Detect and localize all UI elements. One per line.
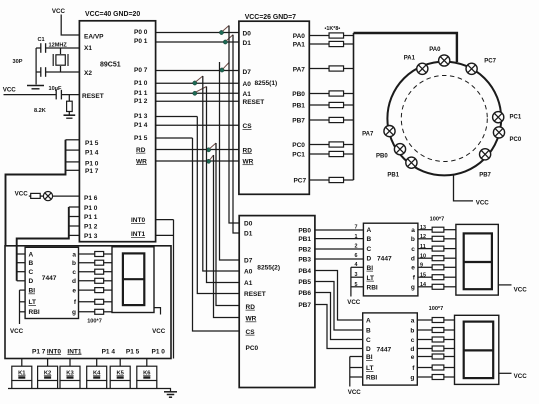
wire WR to U2 WR — [156, 160, 239, 162]
svg-text:P1 4: P1 4 — [85, 150, 99, 157]
svg-text:PC7: PC7 — [484, 58, 496, 64]
svg-text:PC1: PC1 — [292, 152, 305, 159]
LED ring inner dashed circle — [401, 76, 487, 162]
wire resistor RPC0 to common bus — [344, 144, 354, 146]
display DS2 package box — [456, 224, 498, 295]
wire U3 PB7 to U6 D (staircase) — [315, 305, 363, 349]
svg-text:P1 0: P1 0 — [152, 348, 166, 355]
wire U4 d to resistor — [79, 280, 95, 282]
svg-text:c: c — [411, 246, 415, 253]
decoder 7447 U4 package box — [25, 247, 78, 318]
wire U4 input A stub — [17, 253, 25, 255]
svg-text:D1: D1 — [244, 231, 253, 238]
lamp DS1 (P1.6) — [43, 192, 52, 201]
svg-text:EA/VP: EA/VP — [84, 34, 104, 41]
wire VCC to resistor R2 — [29, 195, 31, 197]
PPI 8255(2) U3 package box — [239, 216, 315, 388]
key switch K6 — [137, 366, 157, 380]
svg-text:RD: RD — [136, 147, 146, 154]
wire U4 b to resistor — [79, 262, 95, 264]
wire key K5 legs to ground rail — [110, 381, 130, 389]
svg-text:7: 7 — [355, 225, 358, 231]
wire resistor to display DS4 g — [104, 311, 112, 313]
svg-text:D7: D7 — [244, 258, 253, 265]
wire key K2 to module — [47, 359, 49, 367]
svg-text:P1 0: P1 0 — [134, 80, 148, 87]
wire U5 f to resistor — [418, 276, 432, 278]
svg-text:VCC: VCC — [52, 8, 66, 15]
svg-text:VCC: VCC — [15, 191, 29, 198]
svg-text:B: B — [367, 236, 372, 243]
svg-text:P0 1: P0 1 — [134, 38, 148, 45]
node P1.1 bus junction — [193, 91, 197, 95]
svg-text:A0: A0 — [243, 81, 252, 88]
svg-text:LT: LT — [367, 275, 374, 282]
ground (crystal capacitors) — [27, 86, 44, 89]
resistor RPB0 (LED ring PB0) — [329, 91, 344, 96]
display DS4 digit eight — [123, 253, 144, 305]
resistor segment a (display DS3) — [432, 318, 444, 323]
svg-text:C: C — [29, 269, 34, 276]
wire U4 input B stub — [17, 262, 25, 264]
svg-text:8.2K: 8.2K — [34, 108, 46, 114]
svg-text:89C51: 89C51 — [100, 62, 121, 69]
svg-text:P0 0: P0 0 — [134, 29, 148, 36]
svg-text:INT0: INT0 — [131, 217, 145, 224]
svg-text:D0: D0 — [243, 31, 252, 38]
svg-text:7447: 7447 — [377, 347, 392, 354]
wire U5 BI/LT/RBI common to VCC — [351, 267, 364, 296]
svg-text:c: c — [411, 337, 415, 344]
svg-text:LT: LT — [29, 299, 36, 306]
svg-text:P1 0: P1 0 — [85, 161, 99, 168]
bus entry diagonal RD — [210, 143, 216, 149]
wire resistor to display DS4 d — [104, 280, 112, 282]
svg-text:P0 7: P0 7 — [134, 67, 148, 74]
svg-text:B: B — [366, 327, 371, 334]
wire key K4 to module — [96, 359, 98, 367]
wire capacitor common to ground — [35, 48, 37, 85]
bus wire WR to U3 WR — [214, 155, 240, 318]
wire U3 PB5 to U6 B (staircase) — [315, 282, 363, 331]
wire resistor to display DS2 b — [444, 238, 456, 240]
key switch K1 — [12, 366, 32, 380]
wire INT1 to key module — [156, 234, 174, 236]
ground rail wire (keys) — [8, 389, 171, 392]
wire P2.1 stub (left) — [69, 216, 80, 218]
wire resistor to display DS2 c — [444, 248, 456, 250]
wire key K2 legs to ground rail — [38, 381, 58, 389]
wire U2 PB7 to resistor — [309, 119, 329, 121]
svg-text:P1 2: P1 2 — [84, 224, 98, 231]
svg-text:B: B — [29, 260, 34, 267]
wire key K1 to module — [21, 359, 23, 367]
svg-text:PB5: PB5 — [298, 279, 311, 286]
wire U4 input C stub — [17, 271, 25, 273]
svg-text:BI: BI — [367, 265, 374, 272]
wire display DS4 common down to VCC — [154, 308, 161, 315]
wire resistor to display DS4 f — [104, 301, 112, 303]
svg-text:PA7: PA7 — [293, 66, 306, 73]
svg-text:VCC=40 GND=20: VCC=40 GND=20 — [85, 11, 140, 18]
resistor segment a (display DS4) — [95, 252, 104, 257]
wire lamp DS1 to P1.6 pin — [53, 195, 80, 197]
decoder 7447 U6 package box — [363, 313, 418, 385]
svg-text:INT1: INT1 — [131, 231, 145, 238]
wire U5 c to resistor — [418, 248, 432, 250]
wire resistor to display DS4 b — [104, 262, 112, 264]
svg-text:CS: CS — [243, 123, 253, 130]
svg-text:A0: A0 — [244, 269, 253, 276]
svg-text:PA7: PA7 — [362, 131, 374, 137]
wire resistor to display DS2 f — [444, 276, 456, 278]
svg-text:d: d — [410, 346, 414, 353]
bus wire INT0/INT1 down right side of key module — [173, 220, 175, 359]
svg-text:D: D — [29, 278, 34, 285]
svg-text:100*7: 100*7 — [430, 216, 445, 222]
wire P1.3 to vertical bus — [156, 116, 198, 118]
wire resistor RPB1 to common bus — [344, 104, 354, 106]
resistor segment b (display DS2) — [432, 236, 444, 241]
wire P1.7 stub (left) — [66, 169, 80, 171]
svg-text:PC0: PC0 — [510, 137, 522, 143]
svg-text:VCC: VCC — [514, 373, 528, 380]
svg-text:P1 0: P1 0 — [84, 205, 98, 212]
wire VCC to EA/VP pin — [61, 15, 79, 36]
wire display DS2 common to VCC — [498, 284, 511, 286]
wire U6 BI/LT/RBI common to VCC — [350, 357, 363, 387]
bus wire RD to U3 RD — [216, 143, 239, 306]
svg-text:PB4: PB4 — [298, 268, 311, 275]
svg-text:K1: K1 — [18, 370, 26, 376]
svg-text:e: e — [411, 265, 415, 272]
svg-text:b: b — [72, 260, 76, 267]
bus wire D7 to U3 D7 — [220, 62, 240, 260]
svg-text:PC1: PC1 — [510, 114, 522, 120]
wire P1.4 stub (left) — [66, 149, 80, 151]
svg-text:K2: K2 — [44, 370, 51, 376]
resistor RPC0 (LED ring PC0) — [329, 142, 344, 147]
svg-text:PB7: PB7 — [479, 173, 491, 179]
svg-text:100*7: 100*7 — [87, 319, 102, 325]
wire U2 PA1 to resistor — [309, 43, 329, 45]
wire resistor to display DS2 a — [444, 229, 456, 231]
wire U3 PB4 to U6 A (staircase) — [315, 271, 363, 321]
svg-text:RD: RD — [243, 147, 253, 154]
crystal Y1 12MHz — [53, 48, 68, 72]
resistor segment e (display DS3) — [432, 354, 444, 359]
wire resistor to display DS4 a — [104, 253, 112, 255]
svg-text:K4: K4 — [93, 370, 101, 376]
wire U2 PA0 to resistor — [309, 35, 329, 37]
PPI 8255(1) U2 package box — [239, 21, 309, 194]
bus entry diagonal P0.0 — [223, 26, 230, 32]
svg-text:P1 3: P1 3 — [134, 113, 148, 120]
resistor segment f (display DS2) — [432, 275, 444, 280]
svg-text:BI: BI — [29, 288, 36, 295]
svg-text:X1: X1 — [84, 45, 92, 52]
display DS4 package box — [112, 247, 154, 313]
svg-text:A: A — [366, 317, 371, 324]
svg-text:P1 4: P1 4 — [102, 348, 116, 355]
svg-text:VCC: VCC — [10, 328, 24, 335]
lamp PA7 (ring) — [384, 126, 395, 137]
svg-text:RBI: RBI — [29, 309, 40, 316]
svg-text:P1 1: P1 1 — [84, 214, 98, 221]
wire key K4 legs to ground rail — [87, 381, 107, 389]
svg-text:P1 4: P1 4 — [134, 122, 148, 129]
svg-text:K5: K5 — [116, 370, 124, 376]
wire U6 e to resistor — [417, 356, 432, 358]
svg-text:VCC: VCC — [3, 87, 17, 94]
wire key K6 legs to ground rail — [137, 381, 157, 389]
svg-text:P1 7: P1 7 — [85, 168, 99, 175]
resistor RPA1 (LED ring PA1) — [329, 41, 344, 46]
wire P2.0 stub (left) — [69, 206, 80, 208]
svg-text:a: a — [411, 227, 415, 234]
svg-text:WR: WR — [246, 316, 257, 323]
svg-text:P1 1: P1 1 — [134, 90, 148, 97]
svg-text:10µF: 10µF — [49, 86, 62, 92]
wire LED ring common to ring top (thick) — [354, 33, 457, 62]
wire resistor RPC7 to common bus — [344, 179, 354, 181]
wire U6 c to resistor — [417, 339, 432, 341]
wire U2 PC1 to resistor — [309, 153, 329, 155]
wire resistor to display DS3 b — [444, 329, 455, 331]
wire resistor to display DS4 e — [104, 289, 112, 291]
svg-text:RESET: RESET — [243, 99, 265, 106]
svg-text:VCC: VCC — [348, 389, 362, 396]
resistor segment c (display DS3) — [432, 337, 444, 342]
resistor RPC1 (LED ring PC1) — [329, 151, 344, 156]
svg-text:1: 1 — [355, 234, 358, 240]
wire U6 f to resistor — [417, 367, 432, 369]
wire resistor to display DS3 d — [444, 348, 455, 350]
svg-text:VCC: VCC — [514, 287, 528, 294]
wire resistor to display DS4 c — [104, 271, 112, 273]
svg-text:RD: RD — [246, 304, 256, 311]
resistor RPA0 (LED ring PA0) — [329, 33, 344, 38]
bus wire P1.3 to U3 RESET — [197, 117, 239, 294]
svg-text:8255(1): 8255(1) — [255, 80, 278, 87]
svg-text:C1: C1 — [38, 37, 45, 43]
capacitor C3 10uF (reset) — [56, 90, 61, 100]
svg-text:P1 5: P1 5 — [126, 348, 140, 355]
svg-text:•1K*8•: •1K*8• — [325, 26, 341, 32]
svg-text:PB3: PB3 — [298, 257, 311, 264]
wire U2 PA7 to resistor — [309, 68, 329, 70]
wire U2 PC0 to resistor — [309, 144, 329, 146]
wire P1.0 to U2 A0 — [156, 82, 239, 84]
resistor RPC7 (LED ring PC7) — [329, 177, 344, 182]
wire P0.7 to U2 D7 — [156, 70, 239, 72]
svg-text:PB1: PB1 — [292, 103, 305, 110]
node P0.0 bus junction — [219, 30, 223, 34]
wire resistor RPA1 to common bus — [344, 43, 354, 45]
svg-text:VCC: VCC — [476, 200, 490, 207]
wire P1.2 to U2 RESET — [156, 100, 239, 102]
wire resistor RPC1 to common bus — [344, 153, 354, 155]
resistor segment f (display DS4) — [95, 299, 104, 304]
MCU 89C51 U1 package box — [79, 21, 155, 242]
ground (keys common) — [164, 392, 177, 397]
bus wire D1 to U3 D1 — [233, 35, 239, 233]
svg-text:CS: CS — [246, 329, 256, 336]
wire P1.5 to vertical bus — [156, 137, 193, 139]
svg-text:PC7: PC7 — [293, 178, 306, 185]
wire INT0 to key module — [156, 219, 174, 221]
wire U5 a to resistor — [418, 229, 432, 231]
wire RD to U2 RD — [156, 149, 239, 151]
svg-text:C: C — [366, 337, 371, 344]
resistor segment e (display DS2) — [432, 265, 444, 270]
svg-text:PB0: PB0 — [376, 154, 388, 160]
key display module box — [5, 246, 171, 359]
wire U3 PB3 to U5 D — [315, 258, 364, 260]
wire P0.1 to U2 D1 — [156, 41, 239, 43]
key switch K3 — [60, 366, 80, 380]
bus wire A1 to U3 A1 — [207, 87, 240, 283]
resistor segment g (display DS3) — [432, 375, 444, 380]
lamp PA0 — [439, 55, 450, 66]
svg-text:RESET: RESET — [82, 93, 104, 100]
wire key K1 legs to ground rail — [12, 381, 32, 389]
resistor segment c (display DS4) — [95, 269, 104, 274]
svg-text:C: C — [367, 246, 372, 253]
svg-text:INT1: INT1 — [67, 348, 81, 355]
svg-text:g: g — [410, 374, 414, 381]
display DS3 package box — [455, 315, 499, 384]
wire U3 PB2 to U5 C — [315, 248, 364, 250]
wire U5 d to resistor — [418, 257, 432, 259]
svg-text:g: g — [72, 309, 76, 316]
wire X1 pin — [61, 47, 80, 49]
resistor segment g (display DS4) — [95, 309, 104, 314]
decoder 7447 U5 package box — [363, 223, 418, 296]
wire X2 pin — [61, 71, 80, 73]
wire key K6 to module — [146, 359, 148, 367]
wire resistor to display DS3 g — [444, 376, 455, 378]
bus wire A0 to U3 A0 — [203, 76, 239, 271]
svg-text:P1 5: P1 5 — [85, 140, 99, 147]
key switch K5 — [110, 366, 130, 380]
svg-text:7447: 7447 — [42, 275, 57, 282]
wire resistor to display DS2 g — [444, 286, 456, 288]
display DS3 digit eight — [464, 322, 494, 379]
svg-text:PB7: PB7 — [298, 302, 311, 309]
wire U4 input D stub — [17, 280, 25, 282]
svg-text:PA0: PA0 — [293, 33, 306, 40]
wire U4 BI/LT/RBI common to VCC — [20, 290, 26, 324]
wire U5 b to resistor — [418, 238, 432, 240]
node P1.0 bus junction — [193, 81, 197, 85]
lamp PC1 (ring) — [493, 112, 504, 123]
wire key K3 to module — [69, 359, 71, 367]
bus entry diagonal WR — [210, 155, 214, 160]
wire U4 f to resistor — [79, 301, 95, 303]
display DS2 digit eight — [464, 233, 492, 289]
svg-text:30P: 30P — [13, 59, 23, 65]
lamp PB7 (ring) — [480, 149, 491, 160]
svg-text:D1: D1 — [243, 40, 252, 47]
svg-text:6: 6 — [355, 253, 358, 259]
wire resistor to display DS2 e — [444, 266, 456, 268]
svg-text:b: b — [410, 327, 414, 334]
resistor segment b (display DS4) — [95, 260, 104, 265]
svg-text:WR: WR — [243, 158, 254, 165]
svg-text:PC0: PC0 — [292, 142, 305, 149]
wire capacitor to RESET pin — [61, 94, 79, 96]
resistor RPB1 (LED ring PB1) — [329, 102, 344, 107]
svg-text:a: a — [72, 251, 76, 258]
wire U3 PB1 to U5 B — [315, 238, 364, 240]
svg-text:d: d — [72, 278, 76, 285]
svg-text:A: A — [367, 227, 372, 234]
bus entry diagonal P1.1 — [196, 87, 207, 93]
svg-text:RBI: RBI — [366, 374, 377, 381]
svg-text:P1 2: P1 2 — [134, 98, 148, 105]
svg-text:b: b — [411, 236, 415, 243]
key switch K4 — [87, 366, 107, 380]
wire U6 a to resistor — [417, 319, 432, 321]
key switch K2 — [38, 366, 58, 380]
lamp PB1 (ring) — [406, 157, 417, 168]
wire U4 a to resistor — [79, 253, 95, 255]
wire P1.0 stub (left) — [66, 161, 80, 163]
wire resistor to display DS3 c — [444, 339, 455, 341]
ground (reset resistor) — [64, 115, 76, 118]
wire display DS3 common to VCC — [499, 372, 512, 374]
wire U3 PB0 to U5 A — [315, 229, 364, 231]
svg-text:PC0: PC0 — [246, 345, 259, 352]
bus entry diagonal P0.1 — [226, 35, 233, 41]
svg-text:d: d — [411, 256, 415, 263]
svg-text:g: g — [411, 284, 415, 291]
resistor R1 8.2K (reset pulldown) — [67, 95, 73, 115]
wire U5 e to resistor — [418, 266, 432, 268]
wire key K3 legs to ground rail — [60, 381, 80, 389]
svg-text:X2: X2 — [84, 70, 92, 77]
wire U6 g to resistor — [417, 376, 432, 378]
resistor RPA7 (LED ring PA7) — [329, 66, 344, 71]
svg-text:D0: D0 — [244, 221, 253, 228]
svg-text:BI: BI — [366, 354, 373, 361]
LED ring outer circle — [387, 62, 501, 176]
svg-text:2: 2 — [355, 244, 358, 250]
lamp PC7 (ring) — [466, 63, 477, 74]
svg-text:c: c — [72, 269, 76, 276]
resistor R2 (P1.6 lamp series) — [31, 193, 41, 198]
resistor RPB7 (LED ring PB7) — [329, 117, 344, 122]
wire VCC to reset capacitor — [4, 94, 57, 96]
svg-text:VCC: VCC — [347, 299, 361, 306]
svg-text:D7: D7 — [243, 69, 252, 76]
wire resistor to display DS2 d — [444, 257, 456, 259]
svg-text:PB2: PB2 — [298, 247, 311, 254]
resistor segment a (display DS2) — [432, 227, 444, 232]
svg-text:PB7: PB7 — [292, 118, 305, 125]
resistor segment e (display DS4) — [95, 288, 104, 293]
svg-text:PA1: PA1 — [404, 56, 416, 62]
svg-text:PA0: PA0 — [429, 47, 441, 53]
wire U6 d to resistor — [417, 348, 432, 350]
resistor segment d (display DS2) — [432, 256, 444, 261]
svg-text:RBI: RBI — [367, 284, 378, 291]
wire U3 PB6 to U6 C (staircase) — [315, 293, 363, 340]
node P0.1 bus junction — [223, 40, 227, 44]
svg-text:D: D — [366, 346, 371, 353]
svg-text:P1 3: P1 3 — [84, 233, 98, 240]
